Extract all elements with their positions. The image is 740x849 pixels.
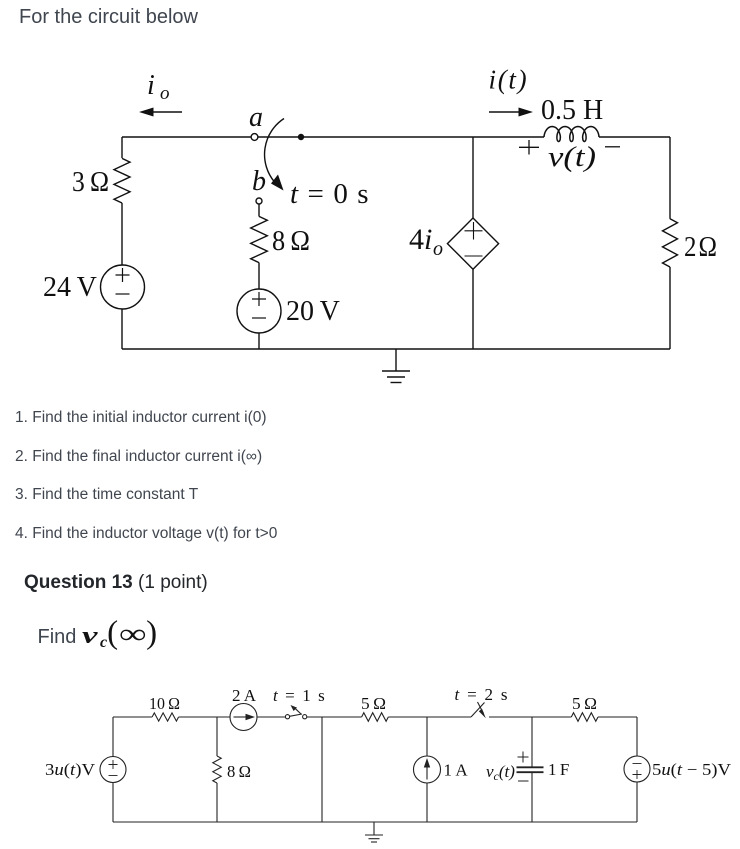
resistor 8ohm bottom <box>213 756 221 783</box>
label a <box>249 102 263 133</box>
wire mid branch <box>321 717 323 822</box>
wire 8ohm branch lower <box>216 783 218 822</box>
wire bottom circuit top rail <box>113 716 637 718</box>
svg-text:t = 1 s: t = 1 s <box>273 686 326 705</box>
label 1A <box>444 761 469 780</box>
label 5ohm right <box>572 694 597 713</box>
question heading <box>24 572 208 594</box>
list item 4 <box>15 525 277 543</box>
svg-text:8 Ω: 8 Ω <box>272 226 310 257</box>
wire dependent source upper <box>472 137 474 218</box>
switch t=1s <box>285 705 306 719</box>
label 0.5H <box>541 95 603 126</box>
resistor 10ohm <box>152 713 179 721</box>
node b <box>256 198 262 204</box>
list item 2 <box>15 448 262 466</box>
label t=2s <box>455 685 510 704</box>
wire 1A branch lower <box>426 783 428 822</box>
label i(t) <box>489 65 529 95</box>
current arrow io <box>139 108 182 117</box>
svg-text:2 Ω: 2 Ω <box>684 232 717 263</box>
svg-text:b: b <box>252 166 266 197</box>
label cap plus <box>518 752 529 763</box>
capacitor 1F <box>517 767 544 772</box>
list item 1 <box>15 409 267 427</box>
current source 2A <box>230 704 257 731</box>
svg-text:1 F: 1 F <box>548 760 569 779</box>
label v(t) minus <box>605 146 620 148</box>
wire left vertical upper <box>121 137 123 158</box>
wire right branch upper <box>636 717 638 756</box>
label t=1s <box>273 686 326 705</box>
svg-text:a: a <box>249 102 263 133</box>
svg-text:io: io <box>147 70 170 104</box>
label vc(t) <box>486 762 515 783</box>
node a <box>251 134 258 141</box>
label 5ohm left <box>361 694 386 713</box>
wire middle vertical lower <box>258 333 260 349</box>
resistor 2ohm <box>663 219 678 267</box>
label 8ohm bottom <box>227 762 251 781</box>
wire left branch upper <box>112 717 114 757</box>
ground bottom circuit <box>365 822 383 842</box>
resistor 5ohm right <box>571 713 598 722</box>
wire top right of switch <box>258 136 670 138</box>
voltage source 3u(t)V <box>100 757 126 783</box>
svg-text:1 A: 1 A <box>444 761 469 780</box>
label io <box>147 70 170 104</box>
label 5u(t-5)V <box>652 760 732 779</box>
svg-text:v(t): v(t) <box>548 142 596 173</box>
wire top left horizontal <box>122 136 251 138</box>
wire bottom horizontal <box>122 348 670 350</box>
wire right vertical lower <box>669 267 671 349</box>
label v(t) plus <box>519 140 539 155</box>
label 1F <box>548 760 569 779</box>
svg-text:3u(t)V: 3u(t)V <box>45 760 96 779</box>
svg-text:5 Ω: 5 Ω <box>572 694 597 713</box>
heading text <box>19 6 198 29</box>
label 3ohm <box>72 167 109 198</box>
svg-text:10 Ω: 10 Ω <box>149 694 180 713</box>
label 10ohm <box>149 694 180 713</box>
svg-text:8 Ω: 8 Ω <box>227 762 251 781</box>
ground top circuit <box>382 349 410 383</box>
svg-text:2 A: 2 A <box>232 686 257 705</box>
dependent source 4io <box>447 218 498 269</box>
wire capacitor branch upper <box>531 717 533 767</box>
voltage source 24V <box>101 265 145 309</box>
label t=0s <box>290 178 370 210</box>
resistor 5ohm left <box>362 713 389 722</box>
switch t=0s arc <box>265 119 284 191</box>
svg-text:5 Ω: 5 Ω <box>361 694 386 713</box>
list item 3 <box>15 486 198 504</box>
label v(t) <box>548 142 596 173</box>
svg-text:t = 0 s: t = 0 s <box>290 178 370 210</box>
current arrow i(t) <box>489 108 533 117</box>
wire middle vertical <box>258 263 260 289</box>
wire dependent source lower <box>472 269 474 349</box>
svg-text:0.5 H: 0.5 H <box>541 95 603 126</box>
svg-text:i(t): i(t) <box>489 65 529 95</box>
svg-text:5u(t − 5)V: 5u(t − 5)V <box>652 760 732 779</box>
label 2A <box>232 686 257 705</box>
wire left branch lower <box>112 783 114 823</box>
voltage source 20V <box>237 289 281 333</box>
wire node b stub <box>258 204 260 216</box>
wire left vertical middle <box>121 203 123 265</box>
svg-text:4io: 4io <box>409 223 443 260</box>
label 20V <box>286 296 340 327</box>
resistor 3ohm <box>114 158 130 203</box>
svg-text:3 Ω: 3 Ω <box>72 167 109 198</box>
inductor 0.5H <box>544 127 599 142</box>
label 4io <box>409 223 443 260</box>
wire right branch lower <box>636 782 638 822</box>
wire bottom circuit bottom rail <box>113 821 637 823</box>
current source 1A <box>414 756 441 783</box>
label 3u(t)V <box>45 760 96 779</box>
resistor 8ohm <box>251 216 268 262</box>
label 24V <box>43 272 97 303</box>
wire capacitor branch lower <box>531 772 533 822</box>
wire 1A branch upper <box>426 717 428 756</box>
label cap minus <box>518 780 529 782</box>
label b <box>252 166 266 197</box>
switch t=2s <box>471 702 486 718</box>
svg-text:t = 2 s: t = 2 s <box>455 685 510 704</box>
svg-text:20 V: 20 V <box>286 296 340 327</box>
wire 8ohm branch upper <box>216 717 218 756</box>
label 2ohm <box>684 232 717 263</box>
svg-text:24 V: 24 V <box>43 272 97 303</box>
voltage source 5u(t-5)V <box>624 756 650 782</box>
wire left vertical lower <box>121 309 123 349</box>
find vc(inf) prompt <box>38 615 158 652</box>
switch pivot junction dot <box>298 134 304 140</box>
label 8ohm <box>272 226 310 257</box>
wire right vertical upper <box>669 137 671 219</box>
svg-text:vc(t): vc(t) <box>486 762 515 783</box>
